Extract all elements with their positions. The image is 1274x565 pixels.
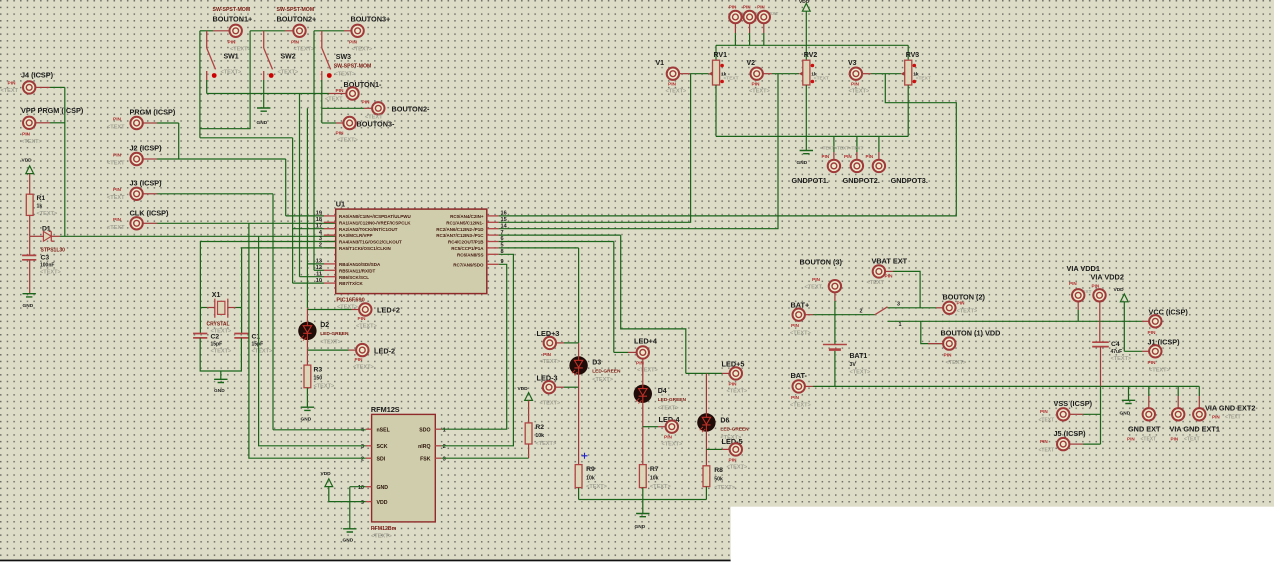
wire U1 pin 7 right — [499, 234, 621, 236]
svg-text:GND: GND — [343, 538, 354, 544]
wire D3 to R9 — [578, 375, 580, 465]
wire R9 bottom — [578, 488, 580, 500]
U1 right pin 15 RC1/AN5/C12IN1- — [487, 221, 499, 223]
svg-text:PIN: PIN — [844, 154, 852, 159]
wire throw 3 to BOUTON (2) — [888, 307, 937, 309]
svg-text:VDD: VDD — [1114, 287, 1125, 293]
svg-text:4: 4 — [361, 428, 364, 434]
wire nIRQ to U1 pin 8 — [441, 254, 513, 445]
svg-text:10k: 10k — [535, 433, 544, 439]
svg-text:VDD: VDD — [518, 386, 529, 392]
capacitor C3 — [22, 255, 36, 259]
svg-text:GNDPOT3.: GNDPOT3. — [891, 176, 928, 185]
svg-text:PIN: PIN — [812, 277, 821, 283]
svg-text:C2: C2 — [211, 334, 220, 341]
svg-text:<TEXT>: <TEXT> — [658, 406, 680, 412]
RFM12S right pin 3 FSK — [435, 457, 441, 459]
svg-text:R3: R3 — [314, 367, 323, 374]
wire VIA VDD1 down to VDD net — [1077, 301, 1079, 310]
svg-text:<TEXT: <TEXT — [814, 76, 829, 82]
pin connector GNDPOT2 — [851, 160, 863, 172]
wire BOUTON3- — [322, 122, 336, 124]
crystal left stub — [207, 307, 215, 309]
wire GNDPOT3 stub — [878, 136, 880, 152]
svg-text:RA2/AN2/T0CKI/INT/C1OUT: RA2/AN2/T0CKI/INT/C1OUT — [339, 227, 398, 232]
svg-text:15pF: 15pF — [252, 342, 264, 348]
wire U1 pin 16 to V3 net — [499, 74, 957, 216]
svg-text:18: 18 — [316, 217, 322, 223]
svg-text:<TEXT>: <TEXT> — [1149, 368, 1171, 374]
wire BOUTON2+ net down/left — [200, 31, 250, 129]
svg-text:RC3/AN7/C12IN3-/P1C: RC3/AN7/C12IN3-/P1C — [436, 233, 484, 238]
svg-text:<TEXT: <TEXT — [805, 285, 823, 291]
svg-text:RA3/MCLR/VPP: RA3/MCLR/VPP — [339, 233, 373, 238]
svg-text:<TEXT>: <TEXT> — [540, 401, 562, 407]
svg-text:BOUTON (2): BOUTON (2) — [943, 293, 986, 302]
svg-text:<TEXT: <TEXT — [1225, 415, 1241, 421]
pin connector BOUTON3+ — [351, 25, 363, 37]
svg-text:C3: C3 — [41, 255, 50, 262]
svg-text:D2: D2 — [320, 322, 329, 329]
pin connector VIA GND EXT2 — [1193, 408, 1205, 420]
wire pots top rail — [716, 44, 908, 46]
svg-text:R2: R2 — [535, 424, 544, 431]
wire down to BOUTON (1) VDD — [921, 321, 943, 343]
wire into U1 pin 12 — [314, 269, 324, 271]
svg-text:BAT1: BAT1 — [850, 353, 868, 360]
svg-text:nSEL: nSEL — [377, 427, 391, 433]
svg-text:PIN: PIN — [1069, 281, 1077, 286]
pin connector VIA GND EXT1 — [1172, 408, 1184, 420]
wire to R3 — [306, 350, 308, 365]
svg-text:<TEXT: <TEXT — [1039, 448, 1055, 454]
svg-text:PIN: PIN — [729, 5, 737, 10]
wire rail to RV3 — [907, 45, 909, 60]
U1 right pin 5 RC5/CCP1/P1A — [487, 247, 499, 249]
wire BOUTON3+ left — [314, 30, 344, 32]
pin connector BOUTON (2) — [943, 302, 955, 314]
capacitor C1 — [234, 334, 248, 338]
stub V1 — [679, 73, 690, 75]
svg-text:3: 3 — [897, 302, 900, 308]
wire CLK to U1 pin 18 — [157, 222, 336, 224]
pin connector LED+3 — [544, 337, 556, 349]
svg-text:J4 (ICSP): J4 (ICSP) — [21, 71, 54, 80]
wire vertical VPP net down to MCLR node — [64, 87, 66, 236]
svg-text:<TEXT: <TEXT — [1, 88, 19, 94]
svg-text:GNDPOT1.: GNDPOT1. — [792, 176, 829, 185]
wire LED resistors ground rail — [579, 499, 707, 501]
wire D1 cathode stub — [51, 235, 60, 237]
svg-text:<TEXT: <TEXT — [1184, 437, 1200, 443]
wire BOUTON (3) down to BAT+ net — [834, 293, 836, 301]
svg-text:<TEXT>: <TEXT> — [727, 465, 749, 471]
capacitor C2 — [193, 334, 207, 338]
svg-text:PIN: PIN — [791, 395, 800, 401]
wire C4 bottom down to VSS/J5 — [1100, 347, 1102, 387]
wire into U1 pin 19 — [286, 215, 324, 217]
wire net down to LED D2 — [306, 108, 308, 308]
wire into U1 pin 13 — [307, 263, 324, 265]
U1 left pin 2 RA5/T1CKI/OSC1/CLKIN — [324, 247, 336, 249]
svg-text:PIN: PIN — [336, 88, 345, 94]
pin connector BOUTON1- — [346, 87, 358, 99]
wire U1 pin 5 right — [499, 247, 579, 249]
svg-text:<TEXT>: <TEXT> — [957, 309, 979, 315]
svg-text:RC1/AN5/C12IN1-: RC1/AN5/C12IN1- — [446, 220, 484, 225]
svg-text:R8: R8 — [714, 467, 723, 474]
svg-text:<TEXT>: <TEXT> — [221, 70, 243, 76]
pin connector GNDPOT3 — [873, 160, 885, 172]
wire BOUTON1+ left — [200, 30, 213, 32]
svg-text:PIN: PIN — [1040, 439, 1048, 444]
canvas bottom border — [0, 560, 731, 562]
svg-text:VDD: VDD — [377, 500, 388, 506]
wire FSK to R2 — [441, 457, 528, 459]
wire to LED-2 — [307, 349, 348, 351]
svg-text:<TEXT>: <TEXT> — [666, 89, 688, 95]
pin connector J1 (ICSP) — [1149, 345, 1161, 357]
pin connector LED-2 — [356, 344, 368, 356]
svg-text:PIN: PIN — [349, 40, 358, 46]
resistor R8 — [703, 466, 710, 487]
pin connector LED-4 — [666, 421, 678, 433]
wire J3 net down to RFM12S nSEL — [272, 194, 274, 430]
svg-text:PIN: PIN — [1148, 360, 1157, 366]
pin connector V3 — [850, 68, 862, 80]
svg-text:PIN: PIN — [822, 154, 830, 159]
svg-text:PIN: PIN — [885, 274, 894, 280]
LED D3 (green) — [569, 356, 587, 375]
wire VPP to net — [50, 122, 65, 124]
svg-text:PIN: PIN — [113, 117, 122, 123]
svg-text:VDD: VDD — [22, 158, 33, 164]
U1 right pin 6 RC4/C2OUT/P1B — [487, 241, 499, 243]
wire LED+4 to D4 — [642, 359, 644, 384]
diode D1 STPS1L30 — [43, 231, 53, 241]
svg-text:BOUTON3+: BOUTON3+ — [351, 15, 391, 24]
svg-text:<TEXT: <TEXT — [1039, 418, 1055, 424]
wire R8 bottom — [705, 487, 707, 500]
svg-text:GND: GND — [635, 524, 646, 530]
ground below SW2 — [257, 108, 270, 111]
svg-text:GND EXT: GND EXT — [1128, 425, 1161, 434]
svg-text:RFM12S: RFM12S — [371, 405, 400, 414]
svg-text:100nF: 100nF — [40, 263, 54, 269]
svg-text:1: 1 — [899, 322, 902, 328]
svg-text:VDD: VDD — [799, 0, 810, 5]
wire top pin stub — [749, 23, 751, 33]
U1 left pin 3 RA4/AN3/T1G/OSC2/CLKOUT — [324, 241, 336, 243]
svg-text:19: 19 — [316, 211, 322, 217]
svg-text:VIA GND EXT2: VIA GND EXT2 — [1205, 404, 1255, 413]
ground below C2/C1 — [214, 379, 227, 382]
svg-text:CLK (ICSP): CLK (ICSP) — [130, 209, 169, 218]
pin connector J4 (ICSP) — [23, 81, 35, 93]
stub LED-5 — [722, 448, 729, 450]
svg-text:<TEXT>: <TEXT> — [1111, 356, 1133, 362]
svg-text:RC2/AN6/C12IN2-/P1D: RC2/AN6/C12IN2-/P1D — [436, 227, 484, 232]
pin connector VIA VDD1 — [1072, 289, 1084, 301]
svg-text:J2 (ICSP): J2 (ICSP) — [130, 144, 163, 153]
pin connector PRGM (ICSP) — [130, 117, 142, 129]
svg-text:RA5/T1CKI/OSC1/CLKIN: RA5/T1CKI/OSC1/CLKIN — [339, 246, 391, 251]
wire VIA GND EXT2 corner — [1198, 386, 1200, 396]
svg-text:150: 150 — [314, 376, 323, 382]
svg-text:<TEXT>: <TEXT> — [294, 47, 316, 53]
svg-text:<TEXT>: <TEXT> — [790, 403, 812, 409]
wire BOUTON2- — [322, 107, 364, 109]
RFM12S left pin 3 SCK — [366, 445, 372, 447]
pin connector VSS (ICSP) — [1057, 408, 1069, 420]
pin connector BOUTON2+ — [293, 25, 305, 37]
svg-text:<TEXT>: <TEXT> — [353, 365, 375, 371]
wire net down to U1 pin 19 — [285, 159, 287, 216]
pin connector top 2 — [743, 11, 755, 23]
pin connector BAT- — [793, 380, 805, 392]
wire down to LED+4 — [613, 242, 615, 353]
svg-text:PIN: PIN — [851, 82, 860, 88]
wire OSC1 to U1 pin 2 — [242, 248, 336, 334]
stub LED+3 — [556, 342, 564, 344]
wire BOUTON1- long — [207, 93, 329, 95]
module U2 RFM12S — [372, 414, 436, 522]
wire down/right to LED+5 net — [621, 235, 686, 373]
pin connector LED-5 — [730, 443, 742, 455]
svg-text:U1: U1 — [336, 200, 345, 209]
svg-text:<TEXT: <TEXT — [724, 76, 739, 82]
pin connector top 3 — [758, 11, 770, 23]
microcontroller U1 PIC16F690 — [336, 209, 487, 294]
svg-text:PIN: PIN — [336, 131, 345, 137]
wire R1 bottom to node — [29, 215, 31, 236]
svg-text:<TEXT>: <TEXT> — [749, 89, 771, 95]
svg-text:BOUTON2-: BOUTON2- — [392, 105, 431, 114]
wire C2/C1 bottoms — [200, 338, 241, 371]
ground below LED resistors — [636, 514, 649, 517]
pin connector BOUTON (3) — [829, 280, 841, 292]
svg-text:<TEXT: <TEXT — [107, 195, 125, 201]
svg-text:PIN: PIN — [291, 40, 300, 46]
wire top pin stub — [763, 23, 765, 33]
pin connector BOUTON (1) VDD — [943, 337, 955, 349]
svg-text:<TEXT<TEXT<TEXT: <TEXT<TEXT<TEXT — [820, 146, 863, 151]
wire VDD down through rail to RV2 — [805, 11, 807, 60]
U1 left pin 12 RB5/AN11/RX/DT — [324, 269, 336, 271]
svg-text:LED-GREEN: LED-GREEN — [592, 369, 621, 375]
wire J4 to VPP net — [50, 86, 65, 88]
resistor R9 — [575, 465, 582, 488]
svg-text:<TEXT: <TEXT — [107, 161, 125, 167]
wire J1 net — [1124, 350, 1142, 352]
svg-text:<TEXT>: <TEXT> — [946, 360, 968, 366]
U1 left pin 18 RA1/AN1/C12IN0-/VREF/ICSPCLK — [324, 221, 336, 223]
svg-text:<TEXT>: <TEXT> — [714, 485, 736, 491]
svg-text:VBAT EXT: VBAT EXT — [872, 257, 908, 266]
wire into U1 pin 17 — [293, 228, 324, 230]
svg-text:R1: R1 — [37, 195, 46, 202]
pin connector BOUTON1+ — [230, 25, 242, 37]
RFM12S right pin 2 nIRQ — [435, 445, 441, 447]
svg-text:2: 2 — [443, 444, 446, 450]
svg-text:J5 (ICSP): J5 (ICSP) — [1054, 429, 1087, 438]
svg-text:<TEXT>: <TEXT> — [252, 349, 274, 355]
pin connector GND EXT — [1143, 408, 1155, 420]
svg-text:<TEXT: <TEXT — [916, 76, 931, 82]
U1 right pin 14 RC2/AN6/C12IN2-/P1D — [487, 228, 499, 230]
ground below C3 — [23, 294, 36, 297]
wire node to D1 anode — [30, 235, 44, 237]
svg-text:V2: V2 — [747, 60, 756, 67]
resistor R7 — [639, 465, 646, 488]
RFM12S left pin 10 GND — [366, 486, 372, 488]
svg-text:PIN: PIN — [358, 316, 367, 322]
svg-text:LED+4: LED+4 — [634, 337, 658, 346]
svg-text:GND: GND — [257, 120, 268, 126]
wire MCLR net to U1 pin 4 — [60, 235, 336, 237]
svg-text:1: 1 — [443, 428, 446, 434]
U1 right pin 16 RC0/AN4/C2IN+ — [487, 215, 499, 217]
white area bottom right — [731, 507, 1274, 565]
wire R7 bottom — [642, 488, 644, 500]
svg-text:RA4/AN3/T1G/OSC2/CLKOUT: RA4/AN3/T1G/OSC2/CLKOUT — [339, 240, 402, 245]
LED D4 (green) — [634, 385, 652, 404]
svg-text:PIN: PIN — [944, 353, 953, 359]
pin stub J3 — [143, 193, 158, 195]
svg-text:J3 (ICSP): J3 (ICSP) — [130, 179, 163, 188]
svg-text:PIN: PIN — [791, 323, 800, 329]
svg-text:PIN: PIN — [1171, 437, 1179, 442]
switch SW3 — [322, 31, 332, 80]
svg-text:BOUTON2+: BOUTON2+ — [277, 15, 317, 24]
switch SW1 — [207, 31, 217, 80]
pin stub CLK — [143, 222, 158, 224]
svg-text:47uF: 47uF — [1111, 349, 1123, 355]
wire V2 to RV2 wiper — [772, 73, 799, 75]
svg-text:PIN: PIN — [355, 357, 364, 363]
wire bus down to U1 pins 17/10 — [292, 138, 294, 283]
svg-text:9: 9 — [361, 500, 364, 506]
wire to LED+2 — [307, 309, 351, 311]
svg-text:<TEXT>: <TEXT> — [352, 47, 374, 53]
svg-text:PIN: PIN — [729, 382, 738, 388]
wire BAT+ to switch — [813, 314, 875, 316]
wire to D6 — [705, 373, 707, 413]
potentiometer RV2 — [799, 60, 814, 85]
wire D2 cathode — [306, 340, 308, 350]
svg-text:V1: V1 — [656, 60, 665, 67]
svg-text:17: 17 — [316, 223, 322, 229]
svg-text:RC5/CCP1/P1A: RC5/CCP1/P1A — [451, 246, 484, 251]
pin stub VPP — [35, 122, 50, 124]
svg-text:PIN: PIN — [22, 132, 31, 138]
stub BAT- — [805, 385, 813, 387]
svg-text:PIN: PIN — [113, 153, 122, 159]
svg-text:PIN: PIN — [543, 352, 552, 358]
svg-text:RC0/AN4/C2IN+: RC0/AN4/C2IN+ — [450, 214, 484, 219]
svg-text:11: 11 — [316, 271, 322, 277]
wire U1 pin 6 right — [499, 241, 614, 243]
svg-text:D3: D3 — [592, 360, 601, 367]
svg-text:<TEXT>: <TEXT> — [850, 370, 872, 376]
ground below RFM12S — [343, 529, 356, 532]
wire RV3 bottom to rail — [907, 85, 909, 136]
pin connector J5 (ICSP) — [1057, 438, 1069, 450]
stub LED-3 — [555, 386, 564, 388]
wire BAT+ net to battery — [834, 315, 836, 345]
svg-text:<TEXT>: <TEXT> — [37, 211, 59, 217]
stub V2 — [763, 73, 772, 75]
svg-text:<TEXT>: <TEXT> — [662, 442, 684, 448]
svg-text:GND: GND — [23, 303, 34, 309]
pin connector VPP PRGM (ICSP) — [23, 117, 35, 129]
wire VIA GND EXT1 stub — [1177, 386, 1179, 396]
svg-text:CRYSTAL: CRYSTAL — [207, 322, 230, 328]
svg-text:X1: X1 — [212, 292, 221, 299]
svg-text:BAT-: BAT- — [791, 371, 808, 380]
svg-text:PIN: PIN — [957, 301, 966, 307]
svg-text:LED-2: LED-2 — [374, 347, 395, 356]
svg-text:<TEXT>: <TEXT> — [540, 359, 562, 365]
stub VBAT EXT — [885, 270, 893, 272]
pin stub J4 — [35, 86, 50, 88]
svg-text:RFM12Bm: RFM12Bm — [371, 526, 397, 532]
resistor R3 — [304, 365, 311, 388]
svg-text:GND: GND — [797, 160, 808, 166]
wire down to LED+3 node — [578, 248, 580, 343]
svg-text:<TEXT: <TEXT — [867, 280, 885, 286]
svg-text:RA1/AN1/C12IN0-/VREF/ICSPCLK: RA1/AN1/C12IN0-/VREF/ICSPCLK — [339, 220, 411, 225]
resistor R2 — [525, 423, 532, 444]
svg-text:50k: 50k — [714, 477, 723, 483]
pin stub PRGM — [143, 122, 158, 124]
resistor R1 — [26, 194, 33, 215]
svg-text:PIN: PIN — [1092, 284, 1100, 289]
pin connector BAT+ — [793, 309, 805, 321]
U1 left pin 17 RA2/AN2/T0CKI/INT/C1OUT — [324, 228, 336, 230]
svg-text:BOUTON (3): BOUTON (3) — [800, 258, 843, 267]
U1 left pin 19 RA0/AN0/C1IN+/ICSPDAT/ULPWU — [324, 215, 336, 217]
stub VCC — [1142, 320, 1149, 322]
wire SDO to U1 pin 9 — [441, 264, 506, 429]
wire to ground — [220, 371, 222, 379]
wire top pin stub — [734, 23, 736, 33]
svg-text:RB5/AN11/RX/DT: RB5/AN11/RX/DT — [339, 268, 376, 273]
svg-text:<TEXT>: <TEXT> — [278, 70, 300, 76]
potentiometer RV3 — [901, 60, 916, 85]
wire rail to ground symbol — [1128, 386, 1130, 400]
svg-text:RA0/AN0/C1IN+/ICSPDAT/ULPWU: RA0/AN0/C1IN+/ICSPDAT/ULPWU — [339, 214, 411, 219]
U1 left pin 13 RB4/AN10/SDI/SDA — [324, 263, 336, 265]
svg-text:<TEXT>: <TEXT> — [337, 138, 359, 144]
ground below R3 — [301, 407, 314, 410]
svg-text:<TEXT>: <TEXT> — [592, 377, 614, 383]
wire RFM GND pin — [350, 486, 366, 488]
U1 right pin 7 RC3/AN7/C12IN3-/P1C — [487, 234, 499, 236]
svg-text:PIN: PIN — [1212, 415, 1220, 420]
svg-text:VIA GND EXT1: VIA GND EXT1 — [1170, 425, 1220, 434]
wire VSS to ground net — [1083, 413, 1101, 415]
svg-text:<TEXT>: <TEXT> — [21, 139, 43, 145]
wire VDD arrow to R1 — [29, 174, 31, 195]
svg-text:<TEXT>: <TEXT> — [230, 47, 252, 53]
U1 left pin 4 RA3/MCLR/VPP — [324, 234, 336, 236]
svg-text:2: 2 — [860, 309, 863, 315]
stub J5 — [1069, 443, 1083, 445]
pin connector J2 (ICSP) — [130, 153, 142, 165]
svg-text:10: 10 — [358, 485, 364, 491]
wire GND EXT stub — [1148, 386, 1150, 396]
